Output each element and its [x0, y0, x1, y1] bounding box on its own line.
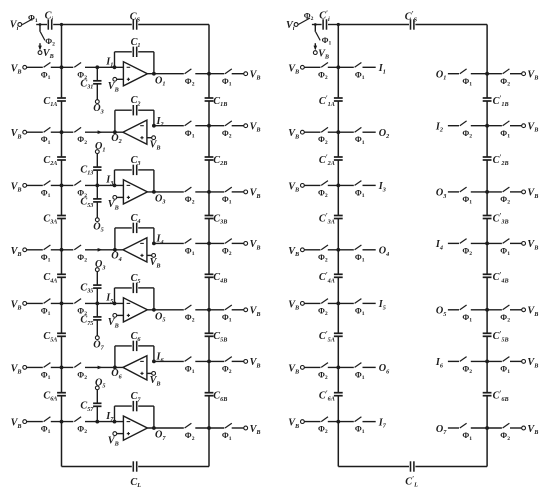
wire opamp output row 7 [147, 427, 183, 429]
switch phi2 row 2 right outer [222, 121, 232, 140]
junction bus B row 6 [207, 360, 211, 364]
wire to VB row 4 prime right [510, 242, 522, 244]
capacitor C5B prime [483, 330, 509, 343]
capacitor C3B prime [483, 212, 509, 225]
junction bus A row 5 [60, 302, 64, 306]
junction output O2 [111, 130, 121, 145]
switch phi1 row 3 prime right inner [460, 187, 472, 206]
switch phi2 row 4 right outer [222, 239, 232, 258]
capacitor CL [130, 461, 141, 489]
wire feedback loop 5 [115, 288, 154, 310]
capacitor C53 coupling [80, 185, 101, 218]
node O2 label left [379, 128, 389, 140]
switch phi1 row 7 prime right inner [460, 423, 472, 442]
junction branch node row 7 [95, 420, 99, 424]
bus A prime vertical rail [337, 25, 339, 467]
node I7 label left [378, 417, 387, 429]
wire switch to node A prime [312, 24, 322, 26]
wire node I4 to switch prime [448, 242, 459, 244]
node I6 label right [435, 357, 444, 369]
wire switch to bus A row 2 [51, 131, 74, 133]
capacitor C2A [43, 155, 66, 167]
wire to bus B row 7 [195, 427, 224, 429]
wire to VB row 1 right [232, 73, 244, 75]
terminal VB row 4 prime right [522, 239, 539, 251]
wire to opamp input row 5 [85, 302, 123, 304]
junction branch node row 1 [95, 65, 99, 69]
wire to VB row 7 right [232, 427, 244, 429]
wire to opamp output row 4 [85, 248, 123, 252]
switch phi2 row 6 prime right inner [460, 357, 472, 376]
wire node O1 to switch prime [448, 73, 459, 75]
wire feedback loop 3 [115, 170, 154, 192]
capacitor C5B [205, 331, 228, 343]
wire Vi to switch [21, 24, 24, 26]
node O3 terminal [95, 259, 105, 271]
switch phi2 row 7 prime left outer [318, 417, 328, 435]
wire Vi prime to switch [297, 24, 299, 26]
junction output O4 [111, 248, 121, 263]
wire feedback loop 7 [115, 406, 154, 428]
switch phi1 row 7 left outer [41, 417, 51, 435]
wire switch to bus row 2 prime [328, 131, 354, 133]
capacitor C1A [43, 96, 66, 108]
wire node A prime down [314, 25, 316, 32]
terminal VB row 5 right [244, 306, 261, 318]
terminal Vi input [10, 20, 22, 32]
switch phi2 row 1 prime right outer [500, 69, 510, 88]
terminal VB opamp 3 plus [108, 196, 124, 212]
capacitor C3B [205, 213, 228, 225]
junction bus A prime row 6 [336, 366, 340, 370]
capacitor C1 feedback [131, 37, 141, 57]
junction bus B row 4 [207, 242, 211, 246]
terminal VB row 2 prime left [288, 128, 304, 140]
capacitor C5 feedback [131, 273, 141, 293]
wire to bus B prime row 3 [471, 191, 502, 193]
switch phi2 row 5 prime right outer [500, 305, 510, 324]
node O5 terminal [95, 377, 105, 389]
node O1 label right [436, 70, 446, 82]
capacitor C3A [43, 213, 66, 225]
node I1 label left [378, 63, 386, 75]
wire opamp input row 4 [154, 242, 184, 244]
terminal VB row 4 prime left [288, 246, 304, 258]
terminal VB opamp 1 plus [108, 77, 124, 93]
terminal VB row 6 prime right [522, 357, 539, 369]
junction output O1 [152, 72, 165, 88]
junction bus B prime row 5 [485, 308, 489, 312]
wire to bus B prime row 2 [471, 125, 502, 127]
wire VB to switch row 2 prime [304, 131, 320, 133]
bus B prime vertical rail [486, 25, 488, 467]
wire switch to bus A row 7 [51, 421, 74, 423]
terminal VB row 5 left [11, 299, 27, 311]
wire arrow to VB prime [314, 43, 318, 50]
wire to node O4 prime [363, 249, 376, 251]
capacitor C57 coupling [80, 390, 101, 422]
wire opamp input row 2 [154, 125, 184, 127]
switch phi2 row 1 left inner [74, 63, 87, 81]
wire to bus B prime row 7 [471, 427, 502, 429]
wire bottom rail right [138, 466, 209, 468]
wire to bus B prime row 5 [471, 309, 502, 311]
wire switch to bus A row 3 [51, 184, 74, 186]
terminal VB row 2 right [244, 122, 261, 134]
capacitor CS [130, 11, 141, 29]
switch phi1 row 5 right outer [222, 305, 232, 324]
node I2 label right [435, 122, 443, 134]
wire VB to switch row 5 prime [304, 302, 320, 304]
switch phi2 row 5 right inner [185, 305, 195, 324]
terminal VB row 2 left [11, 128, 27, 140]
wire to VB row 2 right [232, 125, 244, 127]
switch phi2 row 5 left inner [74, 299, 87, 317]
wire feedback loop 4 [115, 228, 154, 250]
terminal VB row 1 prime right [522, 70, 539, 82]
node O1 terminal [95, 141, 105, 153]
terminal VB discharge prime [313, 48, 329, 60]
switch phi2 row 3 left inner [74, 181, 87, 199]
wire node I6 to switch prime [448, 360, 459, 362]
wire arrow to VB [38, 43, 42, 50]
capacitor C1B prime [483, 95, 509, 108]
switch phi1 row 4 prime right outer [500, 239, 510, 258]
terminal VB row 5 prime left [288, 299, 304, 311]
junction bus A prime row 2 [336, 130, 340, 134]
wire node O7 to switch prime [448, 427, 459, 429]
op-amp U4 [123, 238, 147, 262]
switch phi1 row 2 right inner [185, 121, 195, 140]
wire node O3 to switch prime [448, 191, 459, 193]
switch phi1 row 1 left outer [41, 63, 51, 81]
junction bus A row 3 [60, 184, 64, 188]
switch phi1 row 6 prime right outer [500, 357, 510, 376]
junction output O7 [152, 426, 166, 442]
switch phi1 row 5 left outer [41, 299, 51, 317]
wire VB to switch row 4 [27, 249, 43, 251]
wire to bus B row 2 [195, 125, 224, 127]
wire to VB row 7 prime right [510, 427, 522, 429]
wire to bus B prime row 1 [471, 73, 502, 75]
capacitor C2B [205, 155, 228, 167]
capacitor C3 feedback [131, 155, 141, 175]
wire to VB row 5 prime right [510, 309, 522, 311]
wire VB to switch row 1 [27, 66, 43, 68]
junction bus A prime row 1 [336, 65, 340, 69]
wire switch to bus A row 6 [51, 366, 74, 368]
op-amp U3 [123, 180, 147, 204]
wire to bus B row 6 [195, 360, 224, 362]
capacitor CL prime [405, 461, 418, 488]
junction branch node row 5 [95, 302, 99, 306]
capacitor C13 coupling [80, 153, 101, 185]
terminal VB row 6 right [244, 357, 261, 369]
capacitor C6 feedback [131, 331, 142, 351]
terminal VB row 3 prime right [522, 188, 539, 200]
wire Ci prime to bus [328, 24, 338, 26]
switch phi2 row 1 right inner [185, 69, 195, 88]
capacitor C2B prime [483, 154, 509, 167]
node A prime junction [314, 23, 317, 26]
terminal VB row 7 right [244, 424, 261, 436]
terminal VB row 7 left [11, 418, 27, 430]
terminal VB row 7 prime left [288, 418, 304, 430]
junction input I4 [152, 234, 164, 246]
wire bottom rail left [62, 466, 132, 468]
junction input I2 [152, 116, 164, 128]
wire to node I7 prime [363, 421, 376, 423]
terminal VB row 6 prime left [288, 363, 304, 375]
node O7 label right [436, 424, 447, 436]
wire switch to bus A row 5 [51, 302, 74, 304]
capacitor C4A [43, 272, 66, 284]
capacitor C4B [205, 272, 228, 284]
terminal VB opamp 7 plus [108, 432, 124, 448]
switch phi2 row 6 right outer [222, 357, 232, 376]
wire opamp output row 3 [147, 191, 183, 193]
wire to VB row 1 prime right [510, 73, 522, 75]
switch phi1 row 6 prime left inner [355, 363, 365, 381]
terminal VB opamp 5 plus [108, 314, 124, 330]
switch phi1 discharge prime [316, 32, 332, 47]
capacitor C1A prime [319, 95, 343, 108]
wire VB to switch row 1 prime [304, 66, 320, 68]
junction bus A row 7 [60, 420, 64, 424]
junction bus A row 4 [60, 248, 64, 252]
capacitor C6A prime [319, 389, 343, 402]
wire Ci to bus A [53, 24, 61, 26]
junction top rail bus A prime [337, 23, 340, 26]
terminal VB row 2 prime right [522, 122, 539, 134]
wire top rail to CS prime [338, 24, 409, 26]
switch phi1 row 1 prime left inner [355, 63, 365, 81]
wire feedback loop 2 [115, 110, 154, 132]
wire to bus B row 1 [195, 73, 224, 75]
wire VB to switch row 4 prime [304, 249, 320, 251]
terminal VB discharge [38, 48, 54, 60]
wire opamp output row 5 [147, 309, 183, 311]
wire to VB row 6 prime right [510, 360, 522, 362]
junction bus B prime row 4 [485, 242, 489, 246]
terminal VB row 4 left [11, 246, 27, 258]
junction input I6 [152, 352, 164, 364]
wire switch to bus row 6 prime [328, 366, 354, 368]
switch phi1 row 7 prime left inner [355, 417, 365, 435]
wire to VB row 3 right [232, 191, 244, 193]
junction bus A row 2 [60, 130, 64, 134]
op-amp U1 [123, 62, 147, 86]
junction bus B prime row 7 [485, 426, 489, 430]
junction bus A row 1 [60, 65, 64, 69]
op-amp U6 [123, 356, 147, 380]
wire VB to switch row 7 prime [304, 421, 320, 423]
switch phi1 row 4 left outer [41, 245, 51, 263]
node O5 label right [436, 306, 446, 318]
wire to VB row 3 prime right [510, 191, 522, 193]
switch phi1 row 2 prime right outer [500, 121, 510, 140]
switch phi1 row 5 prime left inner [355, 299, 365, 317]
capacitor C6B prime [483, 389, 509, 402]
terminal VB row 1 prime left [288, 63, 304, 75]
switch phi2 row 7 prime right outer [500, 423, 510, 442]
switch phi2 row 1 prime left outer [318, 63, 328, 81]
junction branch node row 3 [95, 184, 99, 188]
capacitor C3A prime [319, 212, 343, 225]
node O7 terminal [93, 336, 104, 352]
terminal VB opamp 2 plus [147, 136, 161, 152]
terminal VB row 3 right [244, 188, 261, 200]
switch phi2 row 7 right inner [185, 423, 195, 442]
wire switch to bus A row 1 [51, 66, 74, 68]
wire switch to bus row 7 prime [328, 421, 354, 423]
capacitor CS prime [405, 10, 418, 30]
wire to node I1 prime [363, 66, 376, 68]
bus B vertical rail [208, 25, 210, 467]
wire to VB row 5 right [232, 309, 244, 311]
node A junction [39, 23, 42, 26]
junction bus B row 2 [207, 124, 211, 128]
junction bus B prime row 6 [485, 360, 489, 364]
wire to bus B prime row 6 [471, 360, 502, 362]
op-amp U7 [123, 416, 147, 440]
switch phi1 row 3 prime left inner [355, 181, 365, 199]
node I5 label left [378, 299, 386, 311]
junction bus A prime row 5 [336, 302, 340, 306]
capacitor C2A prime [319, 154, 343, 167]
wire to VB row 6 right [232, 360, 244, 362]
capacitor C5A [43, 331, 66, 343]
switch phi2 row 2 prime right inner [460, 121, 472, 140]
switch phi1 input sampling [22, 13, 38, 24]
wire bottom rail right prime [415, 466, 487, 468]
wire VB to switch row 6 prime [304, 366, 320, 368]
wire switch to bus row 1 prime [328, 66, 354, 68]
wire VB to switch row 2 [27, 131, 43, 133]
wire to VB row 2 prime right [510, 125, 522, 127]
node O4 label left [379, 246, 389, 258]
capacitor Ci [45, 11, 54, 30]
wire node O5 to switch prime [448, 309, 459, 311]
wire switch to bus row 3 prime [328, 184, 354, 186]
bus A vertical rail [61, 25, 63, 467]
switch phi2 input sampling prime [298, 11, 313, 24]
capacitor C31 coupling [80, 67, 101, 100]
wire to opamp input row 3 [85, 184, 123, 186]
wire VB to switch row 7 [27, 421, 43, 423]
node I3 label left [378, 181, 386, 193]
junction bus B row 5 [207, 308, 211, 312]
switch phi2 row 4 left inner [74, 245, 87, 263]
junction bus B prime row 1 [485, 72, 489, 76]
capacitor C75 coupling [80, 303, 101, 336]
wire switch to bus row 4 prime [328, 249, 354, 251]
wire to node O6 prime [363, 366, 376, 368]
switch phi2 row 6 prime left outer [318, 363, 328, 381]
junction input I5 [105, 293, 116, 306]
terminal VB row 3 left [11, 181, 27, 193]
switch phi2 row 2 prime left outer [318, 127, 328, 145]
wire opamp input row 6 [154, 360, 184, 362]
junction input I3 [105, 175, 116, 188]
switch phi1 row 5 prime right inner [460, 305, 472, 324]
capacitor C6A [43, 391, 66, 403]
node I4 label right [435, 239, 443, 251]
terminal VB row 4 right [244, 239, 261, 251]
wire to node O2 prime [363, 131, 376, 133]
wire switch to bus A row 4 [51, 249, 74, 251]
junction bus A prime row 4 [336, 248, 340, 252]
wire to node I5 prime [363, 302, 376, 304]
wire top rail CS to bus B [138, 24, 209, 26]
capacitor C4B prime [483, 271, 509, 284]
wire to bus B row 4 [195, 242, 224, 244]
op-amp U2 [123, 120, 147, 144]
wire feedback loop 6 [115, 346, 154, 368]
wire to opamp output row 6 [85, 366, 123, 370]
junction bus B row 1 [207, 72, 211, 76]
wire to bus B row 5 [195, 309, 224, 311]
junction input I1 [105, 57, 116, 70]
capacitor C7 feedback [131, 391, 142, 411]
terminal VB row 5 prime right [522, 306, 539, 318]
capacitor C2 feedback [131, 95, 141, 115]
junction bus B prime row 2 [485, 124, 489, 128]
capacitor Ci prime [319, 9, 330, 29]
terminal VB row 1 right [244, 70, 261, 82]
capacitor C4A prime [319, 271, 343, 284]
wire top rail CS prime to bus [415, 24, 487, 26]
switch phi2 row 3 prime left outer [318, 181, 328, 199]
switch phi1 row 1 right outer [222, 69, 232, 88]
terminal VB row 3 prime left [288, 181, 304, 193]
junction bus A row 6 [60, 366, 64, 370]
wire to opamp input row 7 [85, 421, 123, 423]
wire VB to switch row 3 prime [304, 184, 320, 186]
switch phi1 row 4 prime left inner [355, 245, 365, 263]
wire opamp output row 1 [147, 73, 183, 75]
switch phi1 row 2 prime left inner [355, 127, 365, 145]
switch phi2 row 7 left inner [74, 417, 87, 435]
wire switch to node A [36, 24, 47, 26]
wire to bus B row 3 [195, 191, 224, 193]
switch phi2 row 2 left inner [74, 127, 87, 145]
switch phi1 row 1 prime right inner [460, 69, 472, 88]
wire feedback loop 1 [115, 52, 154, 74]
switch phi1 row 6 right inner [185, 357, 195, 376]
wire VB to switch row 3 [27, 184, 43, 186]
wire to opamp input row 1 [85, 66, 123, 68]
node O5 terminal [93, 218, 103, 234]
switch phi1 row 3 right outer [222, 187, 232, 206]
node O3 terminal [93, 100, 103, 116]
switch phi1 row 4 right inner [185, 239, 195, 258]
switch phi1 row 3 left outer [41, 181, 51, 199]
capacitor C6B [205, 391, 228, 403]
switch phi1 row 6 left outer [41, 363, 51, 381]
node O6 label left [379, 363, 390, 375]
wire bottom rail left prime [338, 466, 409, 468]
wire top rail to CS [62, 24, 132, 26]
terminal VB row 6 left [11, 363, 27, 375]
switch phi2 row 3 prime right outer [500, 187, 510, 206]
terminal VB row 7 prime right [522, 424, 539, 436]
node O3 label right [436, 188, 446, 200]
switch phi2 row 5 prime left outer [318, 299, 328, 317]
switch phi1 row 2 left outer [41, 127, 51, 145]
junction bus A prime row 3 [336, 184, 340, 188]
terminal VB opamp 6 plus [147, 372, 161, 388]
